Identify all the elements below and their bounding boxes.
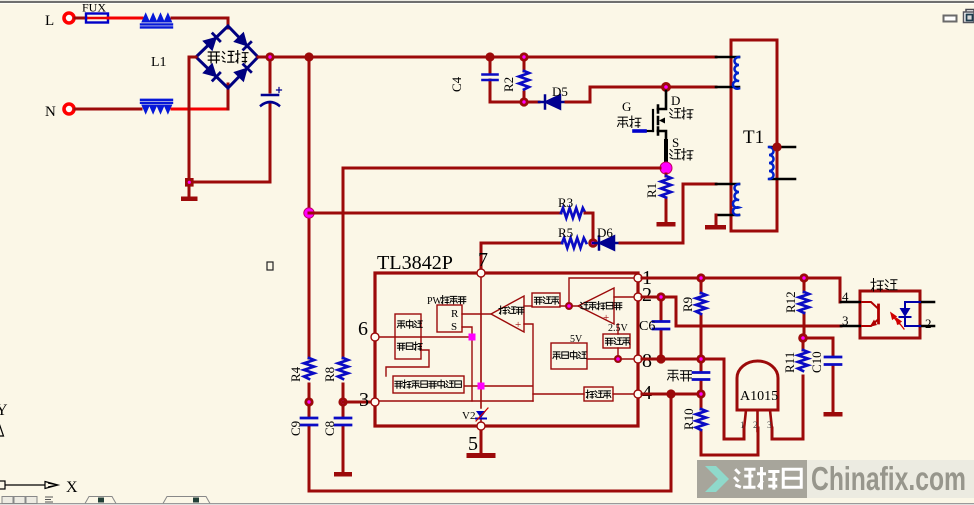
wire R to comparator <box>462 313 491 315</box>
wire pin3 internal <box>379 400 533 402</box>
wire primary top stub <box>716 56 739 59</box>
svg-text:C8: C8 <box>322 421 337 436</box>
svg-text:R8: R8 <box>322 367 337 382</box>
junction ground corner <box>185 178 194 187</box>
svg-text:3: 3 <box>842 313 849 328</box>
label 基准电源 <box>553 351 586 359</box>
svg-text:N: N <box>45 104 56 120</box>
capacitor bulk electrolytic <box>261 88 282 106</box>
pin 5 <box>477 422 485 430</box>
wire N port to choke <box>75 108 141 111</box>
primary winding <box>733 57 739 89</box>
svg-text:X: X <box>66 479 78 496</box>
svg-text:R: R <box>451 308 459 320</box>
wire erroramp to attenuator2 <box>617 324 619 359</box>
label 整流桥 <box>208 50 249 64</box>
wire aux bottom stub <box>716 214 739 217</box>
PWM latch box PW锁存器 <box>437 305 462 332</box>
junction pin4 bottom rail <box>666 389 675 398</box>
optocoupler 光耦 box <box>860 291 920 338</box>
svg-text:1: 1 <box>740 420 745 430</box>
fuse FUX <box>86 17 108 19</box>
wire output stage to UVLO <box>386 350 429 376</box>
node L port <box>64 13 74 23</box>
node N port <box>64 104 74 114</box>
wire pin2 to erroramp <box>614 296 634 298</box>
capacitor C6 <box>660 297 663 359</box>
junction R12 top <box>799 273 808 282</box>
phototransistor <box>862 302 879 326</box>
svg-text:S: S <box>451 321 457 333</box>
ground C10 <box>824 412 843 417</box>
label 振荡器 <box>586 390 611 398</box>
wire vcc vertical R4 <box>308 57 311 402</box>
pin 4 <box>634 390 642 398</box>
wire pin3 link <box>343 401 370 404</box>
wire source feedback rail <box>343 167 660 170</box>
pin 2 <box>634 293 642 301</box>
wire pin1 rail <box>642 278 840 302</box>
rectifier bridge 整流桥 <box>196 26 258 88</box>
secondary winding <box>769 147 774 179</box>
wire S output <box>462 327 472 337</box>
transistor Q2 A1015 package <box>737 361 778 410</box>
junction R8 C8 <box>338 397 347 406</box>
comparator 比较器 <box>491 296 524 332</box>
wire vref to pin8 <box>587 358 634 360</box>
wire oscillator left <box>533 393 584 395</box>
svg-text:2: 2 <box>753 420 758 430</box>
svg-text:2: 2 <box>925 316 932 331</box>
oscillator box 振荡器 <box>584 387 613 401</box>
svg-text:3: 3 <box>359 389 369 411</box>
node UVLO junction <box>478 383 485 390</box>
svg-text:2: 2 <box>642 284 652 306</box>
node S junction <box>469 334 476 341</box>
svg-text:R1: R1 <box>644 183 659 198</box>
wire D5 to drain <box>566 87 716 102</box>
svg-text:C6: C6 <box>639 319 655 334</box>
svg-text:4: 4 <box>842 289 849 304</box>
svg-text:R5: R5 <box>558 225 573 240</box>
junction erroramp out <box>565 302 573 310</box>
wire sense vertical <box>342 168 345 402</box>
pin stub 3 <box>841 325 860 328</box>
watermark right block <box>807 460 974 498</box>
junction drain node <box>661 82 671 92</box>
resistor R2 <box>523 57 526 102</box>
wire choke to bridge bottom <box>172 108 228 111</box>
svg-text:S: S <box>672 135 679 150</box>
svg-text:R12: R12 <box>783 291 798 313</box>
resistor R11 <box>772 338 803 439</box>
wire startup to R3 <box>309 212 561 215</box>
wire pin8 rail <box>642 359 744 439</box>
ground aux <box>715 215 718 225</box>
pin 7 <box>477 269 485 277</box>
junction D6 R5 R3 <box>588 238 598 248</box>
label 误差放大器 <box>580 302 621 310</box>
capacitor C9 <box>308 402 311 491</box>
svg-text:D6: D6 <box>597 225 613 240</box>
resistor R3 <box>561 208 585 218</box>
resistor R10 <box>701 394 758 455</box>
svg-text:G: G <box>622 99 631 114</box>
capacitor C4 <box>489 57 492 102</box>
wire oscillator to pin4 <box>613 393 634 395</box>
ground bridge <box>188 182 191 196</box>
wire S node down to pin3 line <box>471 337 473 401</box>
wire pin6 to S node <box>380 336 472 338</box>
svg-text:5: 5 <box>468 433 478 455</box>
reference box 基准电源 <box>551 343 587 369</box>
wire pin2 net <box>642 297 841 326</box>
wire R3 to D6 node <box>585 213 593 243</box>
wire top DC rail <box>258 56 716 59</box>
transistor Q1 MOSFET <box>645 91 666 163</box>
junction C4 top <box>485 52 494 61</box>
wire D6 to aux winding <box>620 184 716 243</box>
svg-text:PW: PW <box>427 296 443 307</box>
node startup junction <box>304 208 314 218</box>
label 比较器 <box>499 306 524 314</box>
wire pin4 rail <box>642 393 701 396</box>
inductor L1 bottom winding <box>141 100 172 114</box>
svg-text:T1: T1 <box>743 127 764 148</box>
pin stub 4 <box>841 301 860 304</box>
迅维网 white <box>734 467 801 490</box>
svg-text:V2: V2 <box>462 410 475 422</box>
label 门电路 <box>397 320 422 328</box>
svg-text:7: 7 <box>478 249 488 271</box>
svg-text:+: + <box>515 319 521 331</box>
wire L port to fuse <box>75 17 86 20</box>
light arrows <box>891 313 904 329</box>
svg-text:8: 8 <box>642 350 652 372</box>
attenuator box 1 衰减器 <box>532 293 560 307</box>
svg-text:Y: Y <box>0 402 8 419</box>
wire secondary bottom stub <box>770 178 795 181</box>
wire bridge bottom stub <box>227 84 230 109</box>
gate/output stage box 门电路 输出级 <box>395 314 421 359</box>
wire aux top stub <box>716 183 739 186</box>
inductor L1 top winding <box>141 14 172 28</box>
wire pin7 internal vertical <box>480 276 482 426</box>
svg-text:Chinafix.com: Chinafix.com <box>811 460 966 497</box>
resistor R8 <box>338 358 348 379</box>
label 输出级 <box>397 342 422 350</box>
error amplifier 误差放大器 <box>578 288 614 324</box>
wire pin1 internal <box>569 278 634 306</box>
pin 1 <box>634 274 642 282</box>
resistor R9 <box>700 278 703 359</box>
pin stub 2 <box>920 325 934 328</box>
ground R1 <box>657 222 676 227</box>
svg-text:D: D <box>671 93 680 108</box>
svg-text:5V: 5V <box>570 334 583 345</box>
svg-text:R2: R2 <box>501 77 516 92</box>
junction bridge out <box>265 52 274 61</box>
svg-text:A1015: A1015 <box>740 389 778 404</box>
diode D6 <box>593 237 620 250</box>
wire bridge left to ground rail <box>189 57 196 182</box>
transformer T1 core box <box>731 40 777 231</box>
resistor R1 <box>665 174 668 222</box>
junction C6 pin8 <box>656 354 665 363</box>
wire UVLO to vref vertical <box>465 324 533 401</box>
svg-text:FUX: FUX <box>82 1 106 15</box>
svg-text:L: L <box>45 13 54 29</box>
capacitor C10 <box>803 338 833 412</box>
svg-text:2.5V: 2.5V <box>608 323 629 334</box>
resistor R5 <box>562 238 586 248</box>
svg-text:C9: C9 <box>288 421 303 436</box>
ground C8 <box>334 472 352 477</box>
svg-text:R3: R3 <box>558 195 573 210</box>
wire C4 bottom to R2 bottom <box>490 101 539 104</box>
label 衰减器 2 <box>605 338 629 345</box>
diode D5 <box>539 96 566 109</box>
resistor R4 <box>304 358 314 379</box>
svg-text:TL3842P: TL3842P <box>377 252 453 274</box>
resistor R12 <box>803 278 806 338</box>
wire choke to bridge top <box>172 18 228 28</box>
svg-text:L1: L1 <box>151 55 167 70</box>
ground pin5 <box>480 430 483 453</box>
capacitor unlabeled 无标 <box>700 359 703 394</box>
svg-text:R10: R10 <box>681 408 696 430</box>
junction R9 pin8 <box>696 354 705 363</box>
pin stub 1 <box>920 301 934 304</box>
junction R12 R11 C10 <box>798 333 808 343</box>
label 衰减器 1 <box>534 297 558 304</box>
svg-text:C10: C10 <box>809 351 824 373</box>
svg-text:R9: R9 <box>680 297 695 312</box>
wire attenuator1 to erroramp <box>560 305 578 307</box>
aux winding <box>733 184 739 215</box>
junction R2 bottom <box>519 97 528 106</box>
UVLO box 输入欠压锁定电路 <box>393 376 464 393</box>
node source junction <box>660 162 672 174</box>
pin 3 <box>371 398 379 406</box>
LED emitter <box>900 302 921 326</box>
svg-text:6: 6 <box>358 318 368 340</box>
junction rail R4 branch <box>304 52 313 61</box>
label 输入欠压锁定电路 <box>395 380 461 388</box>
pin 6 <box>371 333 379 341</box>
wire fuse to choke <box>108 17 142 20</box>
capacitor C8 <box>342 402 345 472</box>
junction R9 top <box>696 273 705 282</box>
svg-text:R11: R11 <box>782 352 797 373</box>
label 光耦 <box>871 279 897 292</box>
op-amp U1 TL3842P box <box>375 273 638 426</box>
wire secondary top stub <box>770 146 795 149</box>
wire bottom long rail <box>309 394 671 491</box>
junction R10 pin4 <box>696 389 705 398</box>
zener V2 <box>476 411 486 418</box>
junction R2 top <box>519 52 528 61</box>
junction R4 C9 <box>304 397 313 406</box>
chevron logo <box>705 466 729 492</box>
junction vref attenuator <box>614 355 622 363</box>
junction C6 pin2 <box>656 292 665 301</box>
axis X <box>0 481 58 489</box>
label 无标 <box>668 370 692 381</box>
no-erc marker <box>267 262 273 270</box>
watermark left block <box>697 460 807 498</box>
wire comparator to attenuator1 <box>524 305 532 307</box>
attenuator box 2 衰减器 <box>603 334 630 348</box>
pin 8 <box>634 355 642 363</box>
svg-text:D5: D5 <box>552 84 568 99</box>
pin leads A1015 <box>744 410 772 431</box>
wire pin7 to R5 <box>481 243 562 273</box>
gate stub <box>634 129 645 133</box>
junction secondary top <box>772 142 781 151</box>
svg-text:3: 3 <box>767 420 772 430</box>
wire primary bottom stub <box>716 86 739 89</box>
svg-text:R4: R4 <box>288 366 303 382</box>
wire cap branch <box>189 57 270 182</box>
svg-text:C4: C4 <box>449 76 464 92</box>
